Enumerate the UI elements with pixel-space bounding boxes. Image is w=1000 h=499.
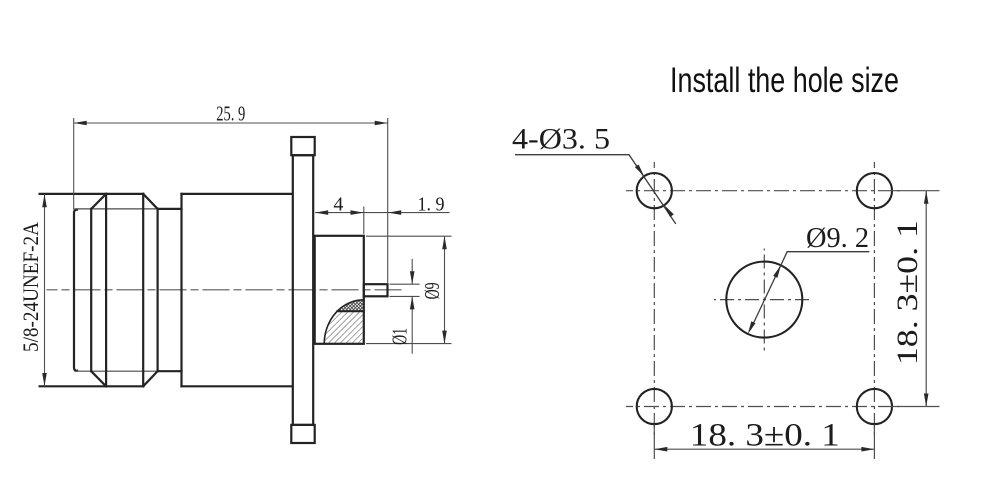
extension top right [891, 190, 940, 192]
corner hole top-right [857, 173, 892, 208]
flange bottom cap [291, 425, 314, 443]
square left side centerline [653, 162, 655, 435]
center hole O9.2 [726, 262, 802, 338]
arrow 25.9 left [74, 121, 87, 126]
svg-text:4: 4 [333, 194, 343, 216]
corner hole bottom-right [857, 389, 892, 424]
svg-text:5/8-24UNEF-2A: 5/8-24UNEF-2A [18, 222, 43, 352]
svg-text:Ø9: Ø9 [420, 282, 444, 299]
dim 25.9 extension left [73, 118, 75, 210]
corner hole bottom-left [637, 389, 672, 424]
groove left wall vertical x=157.6 [157, 209, 159, 371]
center hole vertical centerline [763, 249, 765, 353]
dim O9 extension bottom [366, 343, 452, 345]
thread root top thin line [75, 208, 158, 210]
dim O1 line lower [411, 296, 413, 353]
insulator body [315, 236, 364, 344]
centerline of connector axis [47, 289, 402, 291]
extension bottom-right hole [873, 425, 875, 460]
bottom chamfer diagonal right [143, 371, 157, 386]
arrow O9.2 upper [773, 265, 781, 278]
bottom chamfer diagonal left [91, 371, 106, 386]
groove top line [158, 208, 182, 210]
dim O9 line vertical [444, 236, 446, 343]
front face left edge [74, 210, 77, 371]
square bottom side centerline [626, 406, 902, 408]
arrow O3.5 lower [664, 205, 673, 217]
contact pin [364, 284, 388, 296]
arrow O1 bottom [410, 296, 415, 309]
svg-text:18. 3±0. 1: 18. 3±0. 1 [891, 220, 924, 365]
svg-text:1. 9: 1. 9 [418, 194, 445, 216]
leader 4-O3.5 [515, 155, 676, 224]
arrow dim4 left [315, 210, 328, 215]
body left edge vertical x=181.5 [180, 194, 182, 386]
dim O9 extension top [366, 235, 452, 237]
center hole horizontal centerline [714, 299, 811, 301]
flange top cap [291, 137, 314, 155]
body bottom line [182, 385, 292, 387]
thread root bottom thin line [75, 370, 158, 372]
dim line vertical right [925, 191, 927, 407]
corner hole top-left [637, 173, 672, 208]
chamfer tangent vertical x=106 [105, 194, 107, 386]
arrow 25.9 right [375, 121, 388, 126]
thread OD top line (with left extension) [40, 193, 144, 195]
leader O9.2 [750, 252, 869, 330]
svg-text:4-Ø3. 5: 4-Ø3. 5 [512, 123, 610, 156]
groove bottom line [158, 370, 182, 372]
vertical step at x=91 [90, 209, 92, 371]
arrow right dim top [924, 191, 929, 204]
arrow thread bottom [42, 373, 47, 386]
top chamfer diagonal left [91, 194, 106, 209]
body top line [182, 193, 292, 195]
extension bottom right [891, 406, 940, 408]
arrow dim4 right [351, 210, 364, 215]
pin top extension [390, 283, 420, 285]
insulator crosshatch region [337, 300, 364, 311]
dim 4 extension at insulator face [363, 207, 365, 234]
square top side centerline [626, 190, 902, 192]
thread OD bottom line (with left extension) [40, 385, 144, 387]
arrow thread top [42, 194, 47, 207]
svg-text:Ø1: Ø1 [388, 328, 412, 345]
dim line bottom [654, 448, 874, 450]
dim 4 / 1.9 line [315, 212, 449, 214]
arrow right dim bottom [924, 394, 929, 407]
arrow O9.2 lower [748, 321, 756, 334]
flange mid plate [293, 155, 313, 425]
dim O1 line upper [411, 259, 413, 284]
insulator chord line [337, 310, 364, 312]
arrow O9 top [442, 236, 447, 249]
extension bottom-left hole [653, 425, 655, 460]
svg-text:18. 3±0. 1: 18. 3±0. 1 [690, 418, 840, 454]
square right side centerline [873, 162, 875, 435]
arrow bottom dim right [861, 447, 874, 452]
arrow O3.5 upper [635, 165, 644, 177]
thread end vertical x=143 [142, 194, 144, 386]
arrow O1 top [410, 271, 415, 284]
arrow bottom dim left [654, 447, 667, 452]
right dim 18.3+-0.1 [654, 191, 939, 459]
thread dim line vertical [44, 194, 46, 386]
dim 25.9 line [74, 122, 388, 124]
pin bottom extension [390, 295, 420, 297]
insulator hatch single region [324, 311, 364, 344]
top chamfer diagonal right [143, 194, 157, 209]
arrow dim1.9 [388, 210, 401, 215]
svg-text:25. 9: 25. 9 [216, 102, 245, 126]
svg-text:Install the hole size: Install the hole size [670, 61, 899, 100]
insulator arc outline [324, 300, 364, 344]
dim 25.9 extension right / pin tip extension [387, 118, 389, 284]
arrow O9 bottom [442, 331, 447, 344]
svg-text:Ø9. 2: Ø9. 2 [806, 222, 869, 254]
